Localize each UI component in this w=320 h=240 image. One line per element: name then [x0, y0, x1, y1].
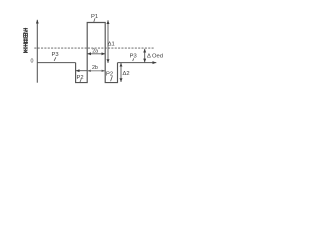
svg-text:P2: P2 [76, 75, 83, 81]
svg-text:P2: P2 [106, 71, 113, 77]
svg-text:2a: 2a [92, 49, 98, 55]
svg-text:Δ1: Δ1 [108, 42, 115, 48]
svg-text:2b: 2b [92, 65, 98, 71]
svg-text:P3: P3 [51, 52, 58, 58]
svg-text:Δ2: Δ2 [123, 71, 130, 77]
svg-text:P1: P1 [91, 14, 98, 20]
svg-text:Δ Oed: Δ Oed [147, 53, 163, 59]
svg-text:0: 0 [30, 59, 33, 65]
svg-text:P3: P3 [130, 54, 137, 60]
